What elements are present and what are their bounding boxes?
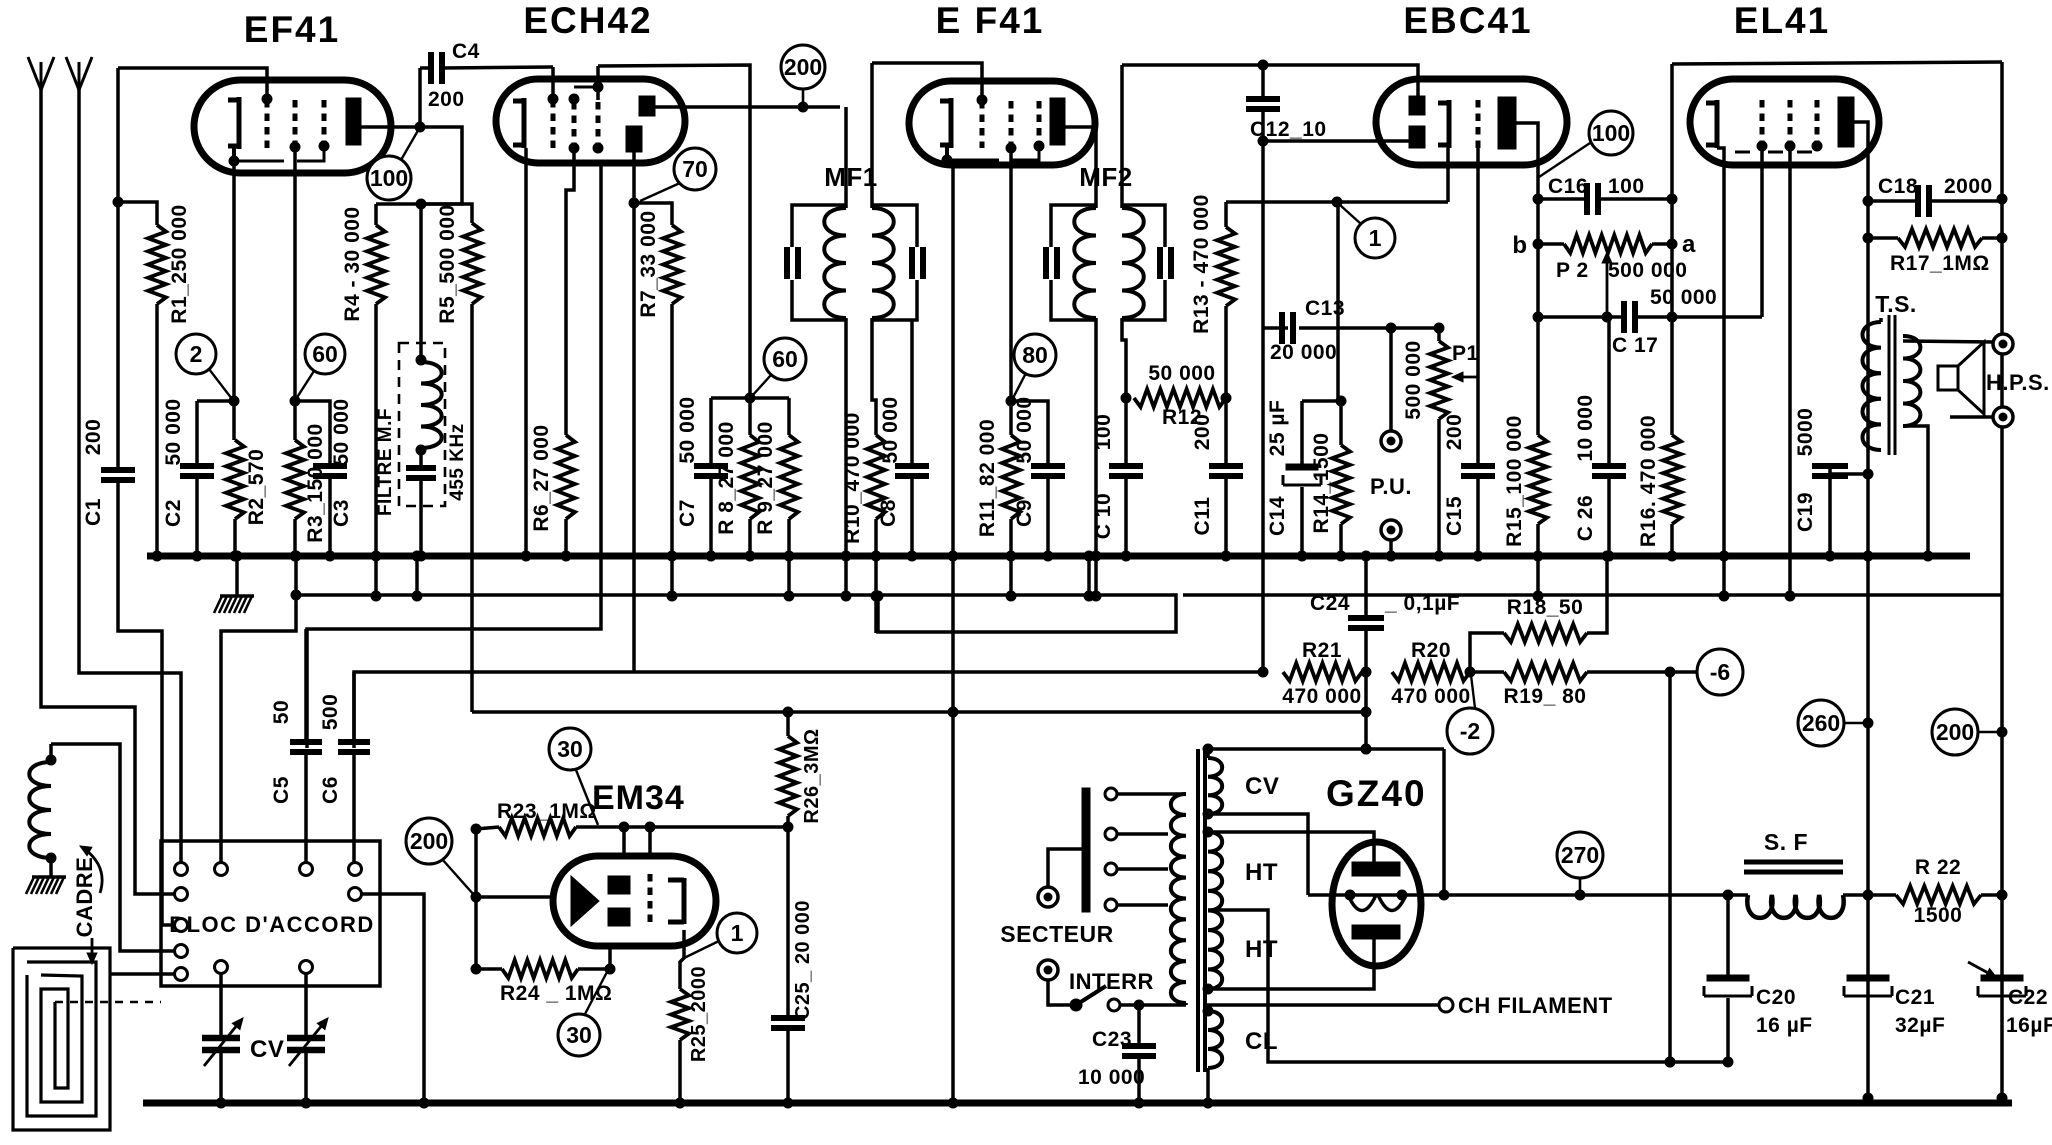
wire bloc ground feed bbox=[221, 595, 296, 862]
label C16 bbox=[1548, 175, 1588, 198]
svg-text:SECTEUR: SECTEUR bbox=[1000, 921, 1113, 947]
svg-text:2: 2 bbox=[190, 341, 203, 367]
capacitor C22 electrolytic bbox=[1978, 975, 2026, 996]
svg-text:R6_27 000: R6_27 000 bbox=[530, 424, 553, 531]
svg-text:FILTRE M.F: FILTRE M.F bbox=[375, 408, 396, 516]
MF1 secondary coil bbox=[872, 63, 894, 318]
P2 wiper arrow bbox=[1602, 252, 1612, 317]
V3 anode bbox=[1050, 98, 1065, 145]
V3 cathode bbox=[940, 98, 951, 148]
label R20 bbox=[1411, 639, 1451, 662]
capacitor C15 bbox=[1461, 466, 1495, 561]
wire V4 anode lead bbox=[1516, 123, 1543, 435]
svg-text:50 000: 50 000 bbox=[1148, 362, 1215, 385]
wire ground rail row1 left bbox=[291, 551, 1176, 632]
svg-text:500 000: 500 000 bbox=[1608, 259, 1687, 282]
svg-text:R 22: R 22 bbox=[1915, 856, 1961, 879]
wire ground rail row1 right bbox=[1183, 593, 2002, 597]
V4 grid dashes bbox=[1476, 100, 1481, 148]
label R12 value bbox=[1148, 362, 1215, 385]
svg-text:C22: C22 bbox=[2008, 986, 2048, 1009]
circle 1 cathode volts bbox=[1355, 218, 1395, 258]
cadre coupling coil bbox=[29, 744, 56, 877]
V2 heptode anode bbox=[639, 96, 655, 116]
capacitor C16 bbox=[1538, 183, 1677, 215]
label S.F bbox=[1764, 829, 1808, 855]
capacitor C3 bbox=[295, 401, 347, 561]
svg-text:C4: C4 bbox=[452, 40, 480, 63]
winding CV bbox=[1208, 749, 1222, 814]
resistor R22 bbox=[1868, 886, 2002, 904]
label R17 bbox=[1890, 252, 1990, 275]
capacitor C11 bbox=[1209, 398, 1243, 561]
label C11 value bbox=[1191, 414, 1214, 451]
capacitor C17 bbox=[1538, 301, 1762, 333]
label C18 bbox=[1878, 175, 1918, 198]
resistor R4 bbox=[367, 204, 421, 601]
label HT winding 2 bbox=[1245, 936, 1278, 963]
box BLOC D ACCORD bbox=[161, 841, 380, 986]
callout line 260 bbox=[1844, 722, 1868, 725]
label C23 bbox=[1092, 1028, 1132, 1051]
capacitor C4 bbox=[420, 52, 553, 84]
label C8 bbox=[877, 499, 900, 527]
svg-text:-6: -6 bbox=[1710, 659, 1730, 685]
label C13 bbox=[1305, 297, 1345, 320]
label C26 bbox=[1574, 495, 1597, 541]
V2 grid g1 dashes bbox=[548, 94, 558, 148]
wire V2 heptode anode lead bbox=[655, 102, 840, 112]
label R8 bbox=[715, 421, 738, 535]
callout line 1em bbox=[684, 941, 719, 958]
V2 grid g2 dashes bbox=[569, 102, 579, 153]
capacitor C6 bbox=[338, 672, 370, 862]
svg-text:C16: C16 bbox=[1548, 175, 1588, 198]
svg-text:R26_3MΩ: R26_3MΩ bbox=[801, 728, 823, 823]
label C21 bbox=[1895, 986, 1935, 1009]
svg-text:1500: 1500 bbox=[1914, 904, 1963, 927]
svg-text:C18: C18 bbox=[1878, 175, 1918, 198]
label C23 value bbox=[1078, 1066, 1145, 1089]
label C22 bbox=[2008, 986, 2048, 1009]
resistor R18 bbox=[1470, 551, 1612, 672]
wire EBC41 grid pin bbox=[1476, 148, 1480, 466]
resistor R13 bbox=[1217, 202, 1235, 403]
speaker HPS frame bbox=[1938, 366, 1958, 390]
svg-text:C1: C1 bbox=[82, 498, 105, 526]
wire V2 osc grid pin bbox=[566, 148, 574, 435]
svg-text:50 000: 50 000 bbox=[162, 398, 185, 465]
svg-text:R14_1500: R14_1500 bbox=[1310, 433, 1333, 534]
svg-text:R7_33 000: R7_33 000 bbox=[637, 210, 660, 317]
wire antenna 2 down-lead bbox=[79, 88, 181, 862]
svg-text:80: 80 bbox=[1022, 342, 1048, 368]
resistor R17 bbox=[1868, 229, 2007, 247]
label P.U. bbox=[1370, 474, 1412, 499]
label C19 value bbox=[1794, 408, 1817, 457]
capacitor C7 bbox=[694, 398, 728, 561]
circle 100 EBC41 anode volts bbox=[1589, 111, 1633, 155]
svg-text:EBC41: EBC41 bbox=[1403, 0, 1532, 41]
capacitor C18 bbox=[1868, 185, 2002, 217]
capacitor C23 bbox=[1122, 1000, 1156, 1108]
svg-text:200: 200 bbox=[410, 828, 448, 854]
svg-text:470 000: 470 000 bbox=[1282, 685, 1361, 708]
circle 1 EM34 bbox=[717, 913, 757, 953]
label R25 bbox=[688, 966, 710, 1062]
resistor R19 bbox=[1470, 663, 1697, 681]
wire rail stub 417 bbox=[412, 551, 422, 601]
label C21 value bbox=[1895, 1014, 1945, 1037]
resistor R21 bbox=[1283, 663, 1362, 681]
antenna A2 bbox=[66, 57, 92, 90]
label CL winding bbox=[1245, 1028, 1278, 1055]
wire row D AVC bbox=[472, 710, 1366, 714]
wire B+ top line bbox=[1672, 62, 2002, 64]
svg-text:50 000: 50 000 bbox=[330, 398, 353, 465]
svg-text:10 000: 10 000 bbox=[1078, 1066, 1145, 1089]
svg-text:16 µF: 16 µF bbox=[1756, 1014, 1813, 1037]
label R9 bbox=[754, 421, 777, 535]
wire loop inner dashed bbox=[55, 1001, 161, 1004]
MF1 secondary cap bbox=[872, 205, 923, 320]
label EF41 second bbox=[936, 0, 1045, 41]
wire EM34 bottom pin left bbox=[608, 944, 612, 969]
V1 grid g3 dashes bbox=[319, 100, 329, 151]
label R10 bbox=[841, 412, 864, 544]
svg-text:R1_250 000: R1_250 000 bbox=[168, 204, 191, 323]
wire a-line vertical bbox=[1670, 64, 1674, 435]
label C1 bbox=[82, 498, 105, 526]
svg-text:C15: C15 bbox=[1443, 496, 1466, 536]
svg-text:b: b bbox=[1512, 232, 1527, 259]
wire right-edge vertical bbox=[1997, 62, 2007, 1103]
jack PU top bbox=[1381, 328, 1401, 451]
label CV bbox=[250, 1036, 284, 1063]
svg-text:25 µF: 25 µF bbox=[1266, 400, 1289, 457]
potentiometer P2 bbox=[1538, 235, 1677, 253]
label 455 KHz bbox=[447, 423, 468, 500]
circle 80 screen volts bbox=[1014, 334, 1056, 376]
callout line 270 bbox=[1579, 878, 1582, 895]
wire EM34 left column bbox=[471, 829, 481, 969]
svg-text:C 10: C 10 bbox=[1092, 493, 1115, 539]
potentiometer P1 bbox=[1430, 328, 1448, 561]
svg-text:R10_470 000: R10_470 000 bbox=[841, 412, 864, 544]
svg-text:BLOC D'ACCORD: BLOC D'ACCORD bbox=[169, 912, 375, 937]
V5 grid g2 dashes bbox=[1785, 100, 1795, 151]
svg-text:C23: C23 bbox=[1092, 1028, 1132, 1051]
svg-text:500 000: 500 000 bbox=[1402, 340, 1425, 419]
transformer MF2 label bbox=[1079, 162, 1133, 192]
bloc terminal l1 bbox=[175, 888, 188, 901]
label CH FILAMENT bbox=[1458, 993, 1613, 1018]
cadre arrow down bbox=[87, 938, 97, 964]
svg-text:CADRE: CADRE bbox=[72, 857, 97, 938]
wire MF2 secondary bottom bbox=[1121, 318, 1131, 403]
label ECH42 bbox=[523, 0, 652, 41]
svg-text:CL: CL bbox=[1245, 1028, 1278, 1055]
label P1 value bbox=[1402, 340, 1425, 419]
svg-text:270: 270 bbox=[1561, 842, 1599, 868]
svg-text:20 000: 20 000 bbox=[1270, 341, 1337, 364]
label R26 bbox=[801, 728, 823, 823]
label C16 value bbox=[1608, 175, 1645, 198]
circle 270 B+ bbox=[1557, 832, 1603, 878]
resistor R11 bbox=[1002, 435, 1020, 601]
terminal CH filament bbox=[1439, 998, 1453, 1012]
wire EM34 input bbox=[476, 895, 556, 899]
binding post bottom bbox=[1950, 407, 2013, 427]
capacitor C13 bbox=[1263, 312, 1444, 344]
loop antenna frame bbox=[13, 948, 110, 1130]
label R16 bbox=[1637, 415, 1660, 547]
resistor R15 bbox=[1529, 435, 1547, 601]
circle 60 ECH42 screen volts bbox=[764, 338, 806, 380]
bloc terminal l4 bbox=[175, 968, 188, 981]
label C14 value bbox=[1266, 400, 1289, 457]
wire V5 cathode pin bbox=[1717, 148, 1729, 601]
transformer MF1 label bbox=[824, 162, 878, 192]
wire B+ out bbox=[1444, 890, 1733, 900]
resistor R10 bbox=[867, 318, 885, 633]
bloc terminal l2 bbox=[175, 919, 188, 932]
transformer primary coil bbox=[1171, 794, 1186, 1005]
svg-text:HT: HT bbox=[1245, 936, 1278, 963]
speaker HPS cone bbox=[1958, 342, 1984, 414]
V5 grid g1 dashes bbox=[1757, 100, 1767, 151]
callout line 60 bbox=[296, 371, 314, 399]
svg-text:200: 200 bbox=[428, 88, 465, 111]
resistor R14 bbox=[1332, 401, 1350, 561]
label C4 value bbox=[428, 88, 465, 111]
svg-text:30: 30 bbox=[566, 1022, 592, 1048]
label P1 bbox=[1452, 342, 1479, 365]
svg-text:S. F: S. F bbox=[1764, 829, 1808, 855]
bloc terminal t2 bbox=[215, 863, 228, 876]
svg-text:R13 - 470 000: R13 - 470 000 bbox=[1190, 194, 1213, 334]
svg-text:C6: C6 bbox=[319, 776, 342, 804]
svg-text:500: 500 bbox=[319, 694, 342, 731]
svg-text:CV: CV bbox=[250, 1036, 284, 1063]
wire HT bottom lead bbox=[1203, 939, 1374, 994]
label T.S. bbox=[1875, 291, 1917, 317]
wire antenna junction lead bbox=[113, 68, 123, 470]
svg-text:R 9_27 000: R 9_27 000 bbox=[754, 421, 777, 535]
circle 70 triode anode volts bbox=[674, 148, 716, 190]
label C17 bbox=[1612, 334, 1658, 357]
label R22 value bbox=[1914, 904, 1963, 927]
MF2 secondary coil bbox=[1122, 65, 1144, 318]
capacitor C12 bbox=[1246, 65, 1280, 677]
label SECTEUR bbox=[1000, 921, 1113, 947]
wire bottom bus bbox=[143, 1100, 2012, 1107]
wire triode anode to row C bbox=[632, 203, 636, 672]
svg-text:C19: C19 bbox=[1794, 492, 1817, 532]
V5 anode bbox=[1838, 97, 1854, 147]
choke SF coil bbox=[1728, 890, 1873, 918]
wire cathode return row bbox=[1226, 197, 1448, 207]
V2 cathode bbox=[513, 98, 524, 148]
svg-text:50: 50 bbox=[270, 700, 293, 724]
svg-text:P 2: P 2 bbox=[1556, 259, 1589, 282]
label C15 bbox=[1443, 496, 1466, 536]
resistor R5 bbox=[421, 204, 481, 712]
label b bbox=[1512, 232, 1527, 259]
antenna A1 bbox=[28, 57, 54, 90]
MF1 primary coil bbox=[824, 107, 851, 601]
tube V6 EM34 bbox=[553, 856, 716, 946]
wire V5 g2 pin bbox=[1785, 146, 1795, 601]
label INTERR bbox=[1069, 969, 1154, 994]
svg-text:T.S.: T.S. bbox=[1875, 291, 1917, 317]
wire EM34 top row bbox=[576, 822, 788, 832]
binding post top bbox=[1993, 334, 2013, 354]
label R13 bbox=[1190, 194, 1213, 334]
wire row C bbox=[354, 672, 1263, 748]
bloc terminal t1 bbox=[175, 863, 188, 876]
svg-text:EL41: EL41 bbox=[1734, 0, 1830, 41]
bloc terminal b1 bbox=[215, 961, 228, 974]
svg-text:EF41: EF41 bbox=[244, 9, 340, 50]
resistor R20 bbox=[1392, 663, 1475, 681]
label C19 bbox=[1794, 492, 1817, 532]
label C5 bbox=[270, 776, 293, 804]
bloc terminal b2 bbox=[300, 961, 313, 974]
label C3 value bbox=[330, 398, 353, 465]
variable capacitor CV2 bbox=[287, 974, 328, 1108]
callout line 100 bbox=[401, 127, 420, 160]
svg-text:GZ40: GZ40 bbox=[1326, 773, 1427, 814]
capacitor C5 bbox=[290, 629, 322, 862]
resistor R12 bbox=[1134, 389, 1226, 407]
svg-text:1: 1 bbox=[1369, 225, 1382, 251]
label HT winding 1 bbox=[1245, 859, 1278, 886]
resistor R9 bbox=[780, 398, 798, 601]
wire V3 suppressor tie bbox=[942, 146, 1039, 165]
filter FILTRE MF box bbox=[399, 343, 445, 506]
svg-text:C3: C3 bbox=[330, 499, 353, 527]
svg-text:2000: 2000 bbox=[1944, 175, 1993, 198]
loop antenna turn 2 bbox=[27, 962, 96, 1116]
wire rail stub 1089 bbox=[1084, 551, 1094, 601]
wire TS secondary bottom bbox=[1903, 426, 1933, 561]
svg-text:P1: P1 bbox=[1452, 342, 1479, 365]
svg-text:R3_150 000: R3_150 000 bbox=[304, 423, 327, 542]
tube V3 EF41 bbox=[909, 81, 1095, 165]
resistor R8 bbox=[741, 398, 759, 561]
cadre arrow up bbox=[80, 846, 102, 893]
transformer TS primary coil bbox=[1862, 318, 1881, 450]
svg-text:MF2: MF2 bbox=[1079, 162, 1133, 192]
label R11 bbox=[976, 419, 999, 537]
svg-text:R19_ 80: R19_ 80 bbox=[1504, 685, 1587, 708]
label C9 value bbox=[1013, 396, 1036, 463]
V1 grid g1 dashes bbox=[262, 94, 272, 148]
callout line 2 bbox=[209, 369, 232, 399]
resistor R7 bbox=[634, 203, 681, 601]
filter MF capacitor bbox=[406, 448, 436, 561]
V4 cathode bbox=[1438, 100, 1449, 148]
svg-text:60: 60 bbox=[772, 346, 798, 372]
callout line 30t bbox=[576, 770, 598, 825]
transformer TS core bbox=[1889, 315, 1895, 455]
svg-text:60: 60 bbox=[312, 341, 338, 367]
svg-text:ECH42: ECH42 bbox=[523, 0, 652, 41]
jack secteur 2 bbox=[1038, 960, 1058, 980]
wire V3 grid top lead bbox=[872, 63, 982, 99]
capacitor C21 electrolytic bbox=[1844, 975, 1892, 996]
label EL41 bbox=[1734, 0, 1830, 41]
wire screen dropper row bbox=[711, 393, 789, 403]
V1 anode bbox=[346, 98, 361, 145]
circle 60 screen volts bbox=[305, 334, 345, 374]
callout line 200em bbox=[442, 859, 474, 895]
svg-text:50 000: 50 000 bbox=[879, 396, 902, 463]
svg-text:C25_ 20 000: C25_ 20 000 bbox=[792, 900, 814, 1020]
wire EM34 bottom pin right bbox=[680, 930, 684, 989]
svg-text:CH FILAMENT: CH FILAMENT bbox=[1458, 993, 1613, 1018]
wire HT top lead bbox=[1203, 827, 1374, 869]
callout line 80 bbox=[1013, 373, 1026, 398]
wire V4 cathode pin bbox=[1446, 148, 1450, 202]
wire loop to bloc bbox=[110, 972, 175, 976]
svg-text:100: 100 bbox=[1592, 120, 1630, 146]
capacitor C25 bbox=[771, 827, 805, 1108]
wire row B bbox=[307, 163, 601, 748]
wire HT center tap bbox=[1208, 910, 1728, 1067]
jack secteur 1 bbox=[1038, 887, 1058, 907]
svg-text:C9: C9 bbox=[1013, 499, 1036, 527]
filter MF coil bbox=[416, 204, 442, 455]
wire secteur 1 bbox=[1048, 849, 1082, 886]
svg-text:100: 100 bbox=[1608, 175, 1645, 198]
bloc terminal t3 bbox=[300, 863, 313, 876]
tube V5 EL41 bbox=[1690, 79, 1879, 165]
svg-text:470 000: 470 000 bbox=[1391, 685, 1470, 708]
wire V3 anode lead bbox=[1065, 127, 1096, 205]
svg-text:C12_10: C12_10 bbox=[1250, 118, 1327, 141]
capacitor C8 bbox=[895, 320, 929, 561]
label C2 value bbox=[162, 398, 185, 465]
svg-text:R 8_27 000: R 8_27 000 bbox=[715, 421, 738, 535]
label R5 bbox=[436, 204, 459, 323]
V5 cathode bbox=[1706, 100, 1717, 148]
winding HT bbox=[1208, 832, 1222, 989]
EM34 target triangle bbox=[571, 876, 599, 926]
tube V7 GZ40 bbox=[1332, 842, 1421, 966]
callout line 200 bbox=[802, 89, 805, 107]
label C17 value bbox=[1650, 286, 1717, 309]
wire antenna 1 down-lead bbox=[41, 88, 175, 894]
secteur plug bar bbox=[1082, 788, 1090, 912]
svg-text:R25_2000: R25_2000 bbox=[688, 966, 710, 1062]
transformer TS secondary coil bbox=[1903, 336, 1920, 426]
wire V2 triode anode pin bbox=[629, 152, 639, 208]
callout line 30b bbox=[585, 972, 607, 1014]
V3 grid g1 dashes bbox=[977, 95, 987, 148]
circle 200 osc anode volts bbox=[781, 45, 825, 89]
wire GZ40 right loop bbox=[1442, 749, 1446, 895]
circle 30 bottom bbox=[558, 1014, 600, 1056]
choke SF core bbox=[1744, 862, 1843, 872]
svg-text:R15_100 000: R15_100 000 bbox=[1503, 415, 1526, 547]
svg-text:32µF: 32µF bbox=[1895, 1014, 1945, 1037]
label EM34 bbox=[592, 779, 685, 817]
callout line -2 bbox=[1471, 675, 1475, 708]
resistor R3 bbox=[286, 440, 304, 561]
svg-text:455 KHz: 455 KHz bbox=[447, 423, 468, 500]
